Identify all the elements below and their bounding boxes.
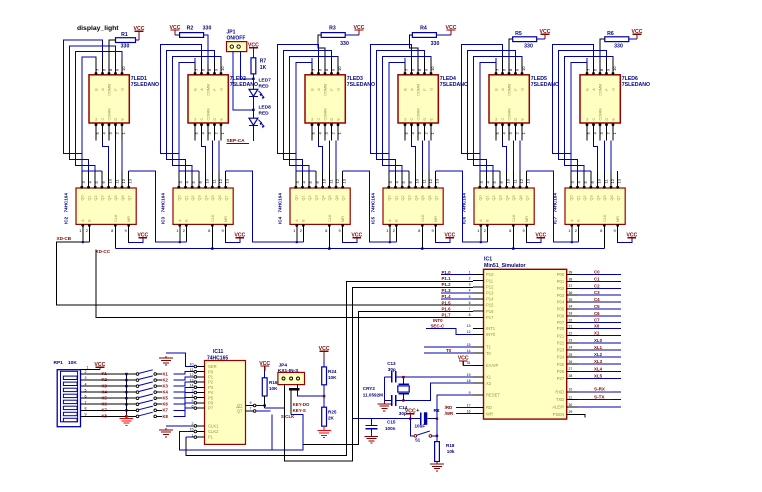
wire (cascade Q7 to next stage) [226, 171, 304, 242]
net S-RX [578, 387, 621, 392]
svg-text:Q1: Q1 [576, 195, 580, 200]
svg-text:K7: K7 [163, 408, 169, 413]
7-segment display 7LED1 [89, 75, 129, 123]
switch S1 [410, 419, 438, 443]
svg-text:Q3: Q3 [315, 195, 319, 200]
wire (cascade Q7 to next stage) [527, 171, 579, 242]
svg-text:12: 12 [428, 178, 433, 183]
svg-text:D: D [605, 118, 609, 121]
svg-text:7: 7 [250, 407, 252, 411]
svg-text:330: 330 [614, 44, 623, 50]
shift register IC3 74HC164 [173, 188, 233, 224]
svg-text:1: 1 [192, 433, 194, 437]
svg-text:P06: P06 [557, 313, 565, 318]
svg-text:Q3: Q3 [198, 195, 202, 200]
7-segment display 7LED4 [398, 75, 438, 123]
svg-text:18: 18 [467, 379, 471, 383]
svg-text:G: G [337, 88, 341, 91]
power VCC (unit 5) [540, 29, 551, 39]
wire (S-CLK loop) [179, 389, 302, 450]
wire (segment bundle bottom) [103, 140, 123, 171]
svg-text:COMM: COMM [599, 108, 603, 120]
wire (segment bundle bottom) [202, 140, 220, 171]
label 74HC164 IC6 [462, 193, 467, 224]
display top pins [495, 58, 526, 75]
svg-text:13: 13 [617, 178, 622, 183]
svg-text:IC7: IC7 [553, 216, 558, 224]
svg-text:C2: C2 [594, 283, 600, 288]
wire [384, 376, 403, 378]
wire (cascade Q7 to next stage) [343, 171, 397, 242]
svg-text:IC2: IC2 [64, 216, 69, 224]
svg-text:11.0592M: 11.0592M [363, 392, 383, 397]
wire [233, 52, 253, 110]
svg-text:74HC164: 74HC164 [553, 193, 558, 213]
svg-text:Q2: Q2 [401, 195, 405, 200]
svg-text:CLK2: CLK2 [208, 429, 219, 434]
wire (CLK to bus) [211, 247, 213, 248]
svg-text:Q6: Q6 [428, 195, 432, 200]
svg-text:74HC164: 74HC164 [64, 193, 69, 213]
svg-text:35: 35 [569, 298, 573, 302]
svg-text:ON/OFF: ON/OFF [227, 35, 246, 41]
svg-text:CLK: CLK [211, 214, 215, 222]
svg-text:P1.4: P1.4 [442, 294, 452, 299]
svg-text:C: C [101, 118, 105, 121]
svg-text:VCC: VCC [626, 232, 637, 238]
svg-text:X1: X1 [486, 375, 492, 380]
svg-text:XD-CC: XD-CC [96, 249, 111, 254]
svg-text:P00: P00 [557, 272, 565, 277]
net XD-CB [56, 236, 473, 305]
svg-text:C: C [200, 118, 204, 121]
resistor R7 1K [251, 58, 267, 74]
svg-text:RED: RED [259, 110, 270, 116]
svg-text:RD: RD [486, 405, 492, 410]
wire (CLK to bus) [603, 247, 605, 248]
wire [436, 238, 450, 242]
svg-text:7LED4: 7LED4 [440, 76, 456, 82]
wire (RP1 pin1) [81, 366, 100, 370]
power VCC (divider) [319, 346, 330, 359]
wire (segment bundle left) [160, 45, 221, 172]
svg-text:Q6: Q6 [121, 195, 125, 200]
svg-text:34: 34 [569, 305, 573, 309]
svg-text:C1: C1 [594, 277, 600, 282]
display top pins [194, 58, 225, 75]
svg-text:100n: 100n [385, 426, 396, 431]
svg-text:1: 1 [87, 366, 89, 370]
svg-text:VCC: VCC [319, 346, 330, 352]
power VCC (R16) [259, 361, 270, 371]
svg-text:S-TX: S-TX [594, 394, 605, 399]
display top pins [404, 58, 435, 75]
svg-text:13: 13 [467, 324, 471, 328]
resistor pack RP1 10K [54, 360, 81, 427]
wire (segment bundle left) [552, 45, 613, 172]
svg-text:VCC: VCC [632, 29, 643, 35]
svg-text:/WR: /WR [445, 411, 454, 416]
resistor R18 10k [435, 419, 455, 462]
svg-text:D: D [423, 118, 427, 121]
svg-text:K3: K3 [163, 384, 169, 389]
junction [409, 418, 438, 420]
svg-text:13: 13 [342, 178, 347, 183]
switch bank K1-K8 [136, 370, 162, 418]
svg-text:10: 10 [506, 178, 511, 183]
wire (X2) [403, 383, 473, 400]
power VCC (unit 1) [134, 26, 145, 40]
svg-text:P03: P03 [557, 293, 565, 298]
wire (KEY-DO) [265, 407, 285, 409]
wires RP1 to switches [81, 370, 137, 416]
svg-text:Q1: Q1 [87, 195, 91, 200]
svg-text:P04: P04 [557, 300, 565, 305]
wire [109, 40, 139, 62]
power VCC (unit 4) [446, 25, 457, 35]
svg-text:R1: R1 [121, 32, 128, 38]
wire (P0 port) [578, 275, 621, 323]
svg-text:X2: X2 [486, 381, 492, 386]
svg-text:G: G [220, 88, 224, 91]
svg-text:K5: K5 [102, 395, 108, 400]
connector JP4 KX1-IN-S [278, 362, 305, 384]
capacitor C14 30p [392, 395, 408, 416]
label 74HC164 IC2 [64, 193, 69, 224]
svg-text:C15: C15 [387, 419, 396, 424]
resistor R2 330 [180, 25, 212, 37]
svg-text:330: 330 [524, 44, 533, 50]
svg-text:R8: R8 [434, 408, 440, 413]
svg-text:30: 30 [569, 403, 573, 407]
svg-text:CLK: CLK [114, 214, 118, 222]
svg-text:COMM: COMM [108, 84, 112, 96]
resistor R16 10K [262, 371, 278, 408]
svg-text:Q6: Q6 [519, 195, 523, 200]
svg-text:P26: P26 [557, 369, 565, 374]
svg-text:R24: R24 [328, 369, 337, 374]
svg-text:H: H [495, 118, 499, 121]
svg-text:P11: P11 [486, 278, 494, 283]
svg-text:P14: P14 [486, 297, 494, 302]
wire (segment bundle bottom) [319, 140, 337, 171]
ground (crystal) [378, 400, 392, 410]
svg-text:74HC164: 74HC164 [462, 193, 467, 213]
svg-text:H: H [311, 118, 315, 121]
svg-text:D: D [330, 118, 334, 121]
svg-text:Q1: Q1 [394, 195, 398, 200]
svg-text:9: 9 [85, 413, 87, 417]
wire [175, 35, 208, 63]
svg-text:9: 9 [250, 401, 252, 405]
svg-text:31: 31 [467, 361, 471, 365]
wire (segment bundle left) [63, 40, 122, 171]
register top pins [178, 171, 230, 188]
svg-text:Q0: Q0 [178, 195, 182, 200]
svg-text:RP1: RP1 [54, 360, 64, 366]
register bottom pins [386, 224, 436, 247]
svg-text:RESET: RESET [486, 393, 500, 398]
svg-text:330: 330 [121, 43, 130, 49]
wire [252, 126, 254, 141]
svg-text:RXD: RXD [555, 390, 564, 395]
svg-text:P1.0: P1.0 [442, 270, 452, 275]
resistor R24 10K [322, 359, 337, 385]
svg-text:1: 1 [469, 270, 471, 274]
wire (JP4 pin3 to divider) [298, 385, 326, 398]
power VCC (MR pullup) [626, 232, 637, 238]
svg-text:39: 39 [569, 270, 573, 274]
svg-text:9: 9 [469, 391, 471, 395]
wire [409, 35, 451, 63]
net S-CLK [281, 414, 295, 419]
label 74HC164 IC7 [553, 193, 558, 224]
wire (X1) [403, 376, 473, 378]
microcontroller IC1 Min51_Simulator [484, 257, 567, 419]
svg-text:7LED6: 7LED6 [622, 76, 638, 82]
svg-text:7: 7 [85, 400, 87, 404]
svg-text:CLK: CLK [603, 214, 607, 222]
svg-text:Q1: Q1 [301, 195, 305, 200]
wire (CLK to bus) [512, 247, 514, 248]
wire [252, 74, 254, 89]
svg-text:12: 12 [519, 178, 524, 183]
ground (switch bank, red) [120, 415, 134, 426]
svg-text:26: 26 [569, 360, 573, 364]
svg-text:COMM: COMM [599, 84, 603, 96]
svg-text:10: 10 [521, 66, 526, 71]
label 7LED2 7SLEDANO [230, 76, 258, 88]
wire (segment bundle bottom) [503, 140, 521, 171]
svg-text:MR: MR [525, 216, 529, 222]
svg-text:H: H [194, 118, 198, 121]
wire [410, 418, 437, 420]
svg-text:10: 10 [430, 66, 435, 71]
svg-text:6: 6 [85, 394, 87, 398]
label 74HC164 IC3 [161, 193, 166, 224]
svg-text:10: 10 [220, 66, 225, 71]
svg-text:COMM: COMM [324, 84, 328, 96]
svg-text:10: 10 [108, 178, 113, 183]
svg-text:10: 10 [415, 178, 420, 183]
svg-text:Q5: Q5 [211, 195, 215, 200]
svg-text:27: 27 [569, 367, 573, 371]
svg-text:P05: P05 [557, 307, 565, 312]
junction dots clock bus [211, 247, 514, 249]
svg-text:C4: C4 [594, 297, 600, 302]
svg-text:Q3: Q3 [590, 195, 594, 200]
junction [252, 78, 254, 111]
svg-text:COMM: COMM [108, 108, 112, 120]
wire [384, 399, 403, 401]
wire (segment bundle left) [370, 45, 431, 172]
svg-text:74HC165: 74HC165 [207, 355, 228, 361]
wire [527, 238, 541, 242]
svg-text:P27: P27 [557, 376, 565, 381]
svg-text:P20: P20 [557, 326, 565, 331]
label 74HC164 IC5 [371, 193, 376, 224]
svg-text:CLK: CLK [421, 214, 425, 222]
svg-text:6: 6 [469, 301, 471, 305]
svg-text:Q2: Q2 [94, 195, 98, 200]
wires switches to IC11 [174, 372, 195, 417]
power VCC (unit 2) [170, 25, 181, 35]
svg-text:Q0: Q0 [479, 195, 483, 200]
svg-text:5: 5 [85, 388, 87, 392]
svg-text:CRY2: CRY2 [363, 386, 376, 391]
svg-text:22: 22 [569, 332, 573, 336]
wire [509, 39, 545, 62]
svg-text:VCC: VCC [137, 232, 148, 238]
svg-text:G: G [612, 88, 616, 91]
svg-text:29: 29 [569, 410, 573, 414]
label 7LED6 7SLEDANO [622, 76, 650, 88]
resistor R5 330 [513, 31, 537, 50]
svg-text:C: C [592, 118, 596, 121]
svg-text:VCC: VCC [351, 232, 362, 238]
svg-text:Q5: Q5 [512, 195, 516, 200]
power VCC (MR pullup) [351, 232, 362, 238]
svg-text:VCC: VCC [444, 232, 455, 238]
svg-text:2K: 2K [328, 416, 335, 421]
svg-text:37: 37 [569, 284, 573, 288]
svg-text:36: 36 [569, 291, 573, 295]
svg-text:COMM: COMM [207, 84, 211, 96]
svg-text:T1: T1 [486, 345, 492, 350]
ground (C15) [365, 433, 379, 443]
svg-text:13: 13 [225, 178, 230, 183]
wire [618, 238, 632, 242]
svg-text:Q5: Q5 [114, 195, 118, 200]
wire [352, 418, 410, 420]
svg-text:K5: K5 [163, 396, 169, 401]
svg-text:P23: P23 [557, 348, 565, 353]
shift register IC6 74HC164 [474, 188, 534, 224]
IC11 left pins [190, 363, 205, 439]
svg-text:7LED5: 7LED5 [531, 76, 547, 82]
svg-text:MR: MR [341, 216, 345, 222]
svg-text:P15: P15 [486, 303, 494, 308]
svg-text:VCC: VCC [354, 25, 365, 31]
svg-text:+: + [416, 408, 419, 414]
svg-text:P25: P25 [557, 362, 565, 367]
svg-text:13: 13 [435, 178, 440, 183]
power VCC (reset) [405, 409, 416, 419]
wire (segment bundle left) [461, 45, 522, 172]
svg-text:VCC: VCC [170, 25, 181, 31]
capacitor C16 10uF [415, 408, 440, 429]
7-segment display 7LED6 [580, 75, 620, 123]
svg-text:C: C [317, 118, 321, 121]
svg-text:P1.6: P1.6 [442, 306, 452, 311]
svg-text:8: 8 [469, 313, 471, 317]
net KEY-S [293, 408, 306, 413]
svg-text:P02: P02 [557, 286, 565, 291]
jumper shunt [289, 388, 300, 391]
svg-text:P1.7: P1.7 [442, 313, 452, 318]
svg-text:COMM: COMM [508, 108, 512, 120]
svg-text:P24: P24 [557, 355, 565, 360]
svg-text:INT0: INT0 [486, 332, 496, 337]
svg-text:COMM: COMM [324, 108, 328, 120]
svg-text:IC6: IC6 [462, 216, 467, 224]
display bottom pins [95, 123, 126, 140]
svg-text:CLK: CLK [328, 214, 332, 222]
svg-text:Q6: Q6 [335, 195, 339, 200]
svg-text:Q0: Q0 [295, 195, 299, 200]
svg-text:P10: P10 [486, 272, 494, 277]
svg-text:330: 330 [431, 41, 440, 47]
svg-text:R5: R5 [515, 31, 522, 37]
power VCC (MR pullup) [535, 232, 546, 238]
ground (R18) [430, 462, 444, 471]
svg-text:1K: 1K [260, 65, 267, 71]
register bottom pins [293, 224, 343, 247]
svg-text:K6: K6 [102, 401, 108, 406]
svg-text:S1: S1 [415, 437, 421, 442]
svg-text:7LED1: 7LED1 [131, 76, 147, 82]
junction [402, 376, 404, 402]
wire [129, 238, 143, 242]
svg-text:10k: 10k [447, 449, 455, 454]
register top pins [295, 171, 347, 188]
svg-text:Q6: Q6 [218, 195, 222, 200]
svg-text:P07: P07 [557, 320, 565, 325]
wire (segment bundle bottom) [594, 140, 612, 171]
label 7LED1 7SLEDANO [131, 76, 159, 88]
svg-text:K8: K8 [102, 414, 108, 419]
wire (PSEN) [578, 414, 586, 417]
shift register IC11 74HC165 [205, 349, 246, 444]
wire (CLK1) [166, 425, 194, 427]
svg-text:12: 12 [121, 178, 126, 183]
svg-text:Q7: Q7 [128, 195, 132, 200]
svg-text:INT1: INT1 [486, 326, 496, 331]
svg-text:23: 23 [569, 339, 573, 343]
wire (cascade Q7 to next stage) [436, 171, 488, 242]
svg-text:R25: R25 [328, 409, 337, 414]
display top pins [95, 58, 126, 75]
svg-text:C6: C6 [594, 311, 600, 316]
svg-text:COMM: COMM [417, 84, 421, 96]
svg-text:21: 21 [569, 324, 573, 328]
svg-text:Min51_Simulator: Min51_Simulator [484, 263, 526, 269]
svg-text:D: D [514, 118, 518, 121]
svg-text:3: 3 [85, 376, 87, 380]
wire (SER) [166, 353, 194, 367]
wire [296, 241, 304, 244]
net labels P1.0-P1.7 [442, 270, 452, 318]
svg-text:K7: K7 [102, 408, 108, 413]
svg-text:XL0: XL0 [594, 338, 603, 343]
label 7LED5 7SLEDANO [531, 76, 559, 88]
svg-text:D: D [114, 118, 118, 121]
svg-text:2: 2 [85, 370, 87, 374]
label 7LED3 7SLEDANO [347, 76, 375, 88]
svg-text:P17: P17 [486, 315, 494, 320]
svg-text:R6: R6 [607, 31, 614, 37]
svg-text:Q6: Q6 [610, 195, 614, 200]
svg-text:12: 12 [218, 178, 223, 183]
svg-text:P22: P22 [557, 340, 565, 345]
resistor R6 330 [605, 31, 629, 50]
svg-text:Q2: Q2 [308, 195, 312, 200]
power VCC (MR pullup) [234, 232, 245, 238]
svg-text:MR: MR [224, 216, 228, 222]
svg-text:3: 3 [469, 283, 471, 287]
wire [343, 238, 357, 242]
LED LED7 RED [249, 78, 271, 100]
